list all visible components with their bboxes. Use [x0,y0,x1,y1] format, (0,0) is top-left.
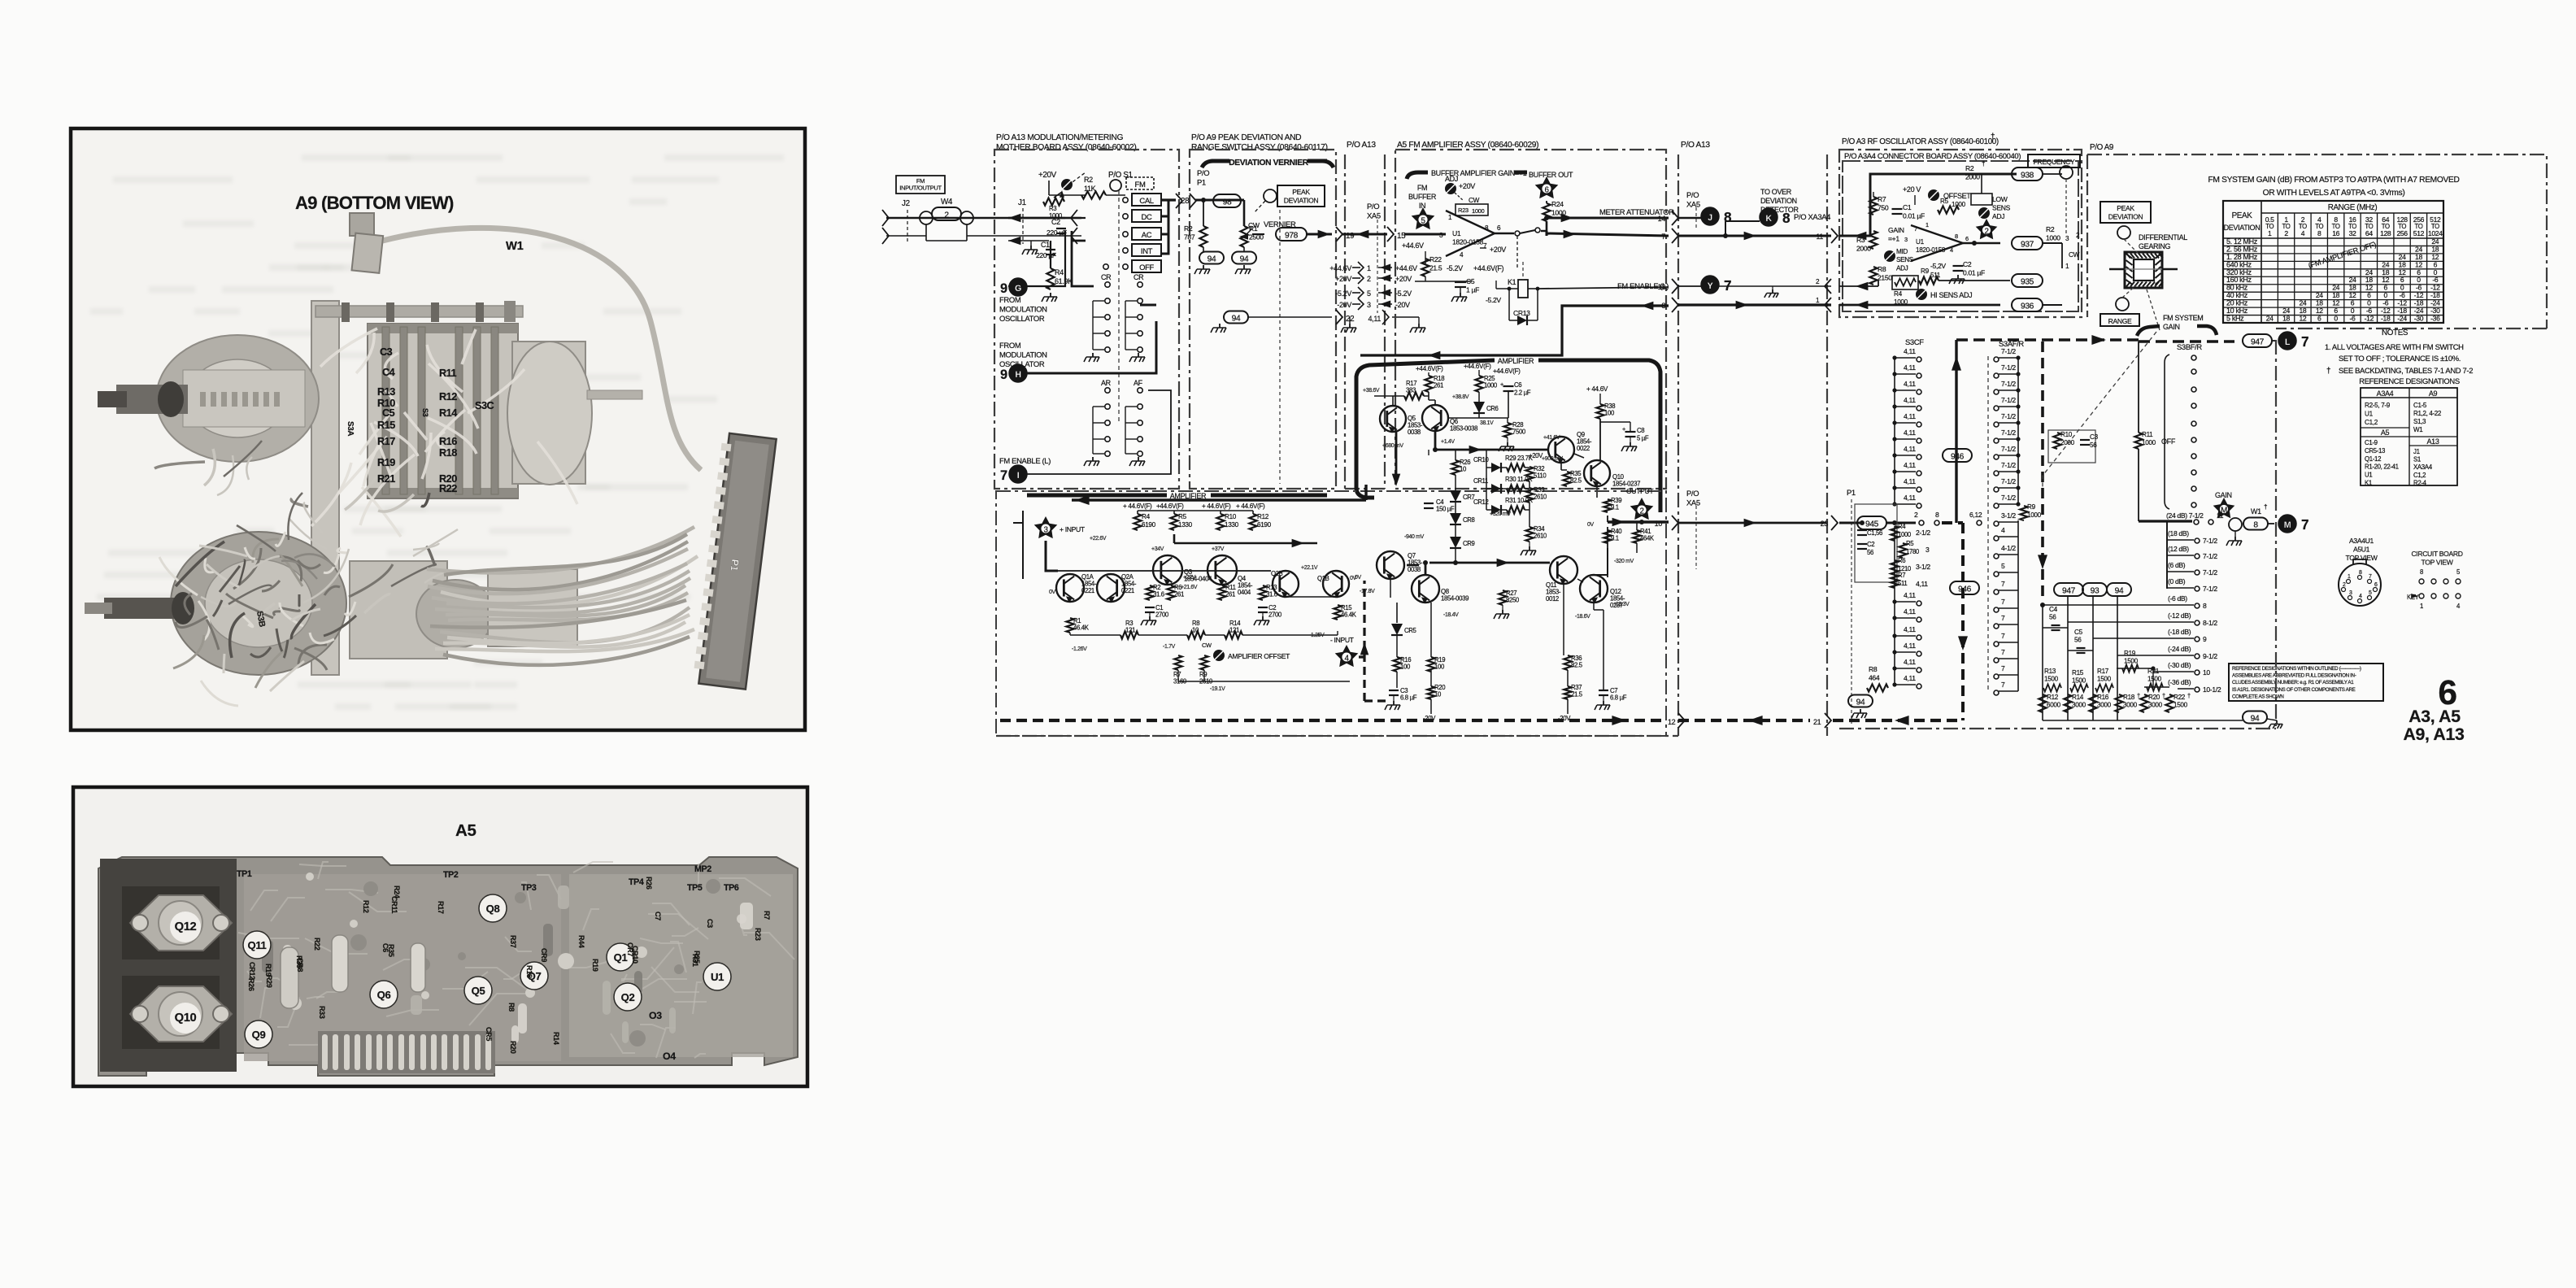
svg-text:O3: O3 [649,1010,662,1021]
svg-text:†: † [2137,692,2140,699]
resistor R34 2610 [1525,527,1533,542]
svg-text:+320 mV: +320 mV [1490,511,1511,517]
svg-text:+1.4V: +1.4V [1441,439,1455,445]
svg-text:7-1/2: 7-1/2 [2001,380,2016,388]
resistor R19 100 [1427,657,1434,672]
flag Y 7 [1678,285,1702,287]
svg-text:4,11: 4,11 [1904,625,1916,633]
heading DEVIATION VERNIER [1202,161,1334,168]
svg-text:MODULATION: MODULATION [999,304,1047,313]
svg-text:TP5: TP5 [687,883,703,893]
svg-text:†: † [2162,692,2165,699]
wire Q9 Q10 [1561,454,1597,498]
resistor R10 1330 [1216,514,1224,530]
svg-text:1500: 1500 [2097,675,2112,682]
svg-text:SENS: SENS [1896,256,1914,263]
svg-text:TP4: TP4 [629,877,644,887]
wire opamp out 937 [1963,242,2000,245]
svg-text:CR5: CR5 [1404,627,1416,634]
svg-text:FREQUENCY: FREQUENCY [2034,158,2075,166]
svg-text:R23: R23 [1458,207,1469,214]
svg-text:†: † [1991,133,1995,141]
resistor R11 1000 [2134,433,2142,449]
resistor R14 121 [1225,631,1242,638]
wire Q11 Q12 verticals [1564,579,1603,714]
dB ladder rows [2043,529,2221,694]
svg-text:7: 7 [2001,614,2005,622]
pot symbol W1 [2229,518,2242,531]
op-amp U1 A5 [1446,211,1495,256]
svg-text:Q2: Q2 [621,991,635,1003]
svg-text:383: 383 [1406,387,1416,394]
svg-text:5110: 5110 [1534,472,1547,480]
svg-text:Q9: Q9 [252,1029,266,1041]
svg-text:R12: R12 [362,900,370,913]
svg-text:4,11: 4,11 [1904,674,1916,682]
svg-text:U1: U1 [1452,229,1461,237]
capacitor C2 56 [1857,543,1867,545]
svg-text:8: 8 [2203,602,2207,610]
svg-text:R5: R5 [1906,540,1913,547]
pin 13 [1672,279,1678,294]
svg-text:A5U1: A5U1 [2353,546,2370,554]
svg-text:S3: S3 [421,408,429,417]
svg-text:1000: 1000 [2046,234,2060,242]
svg-text:Q6: Q6 [377,989,391,1001]
svg-text:C2: C2 [1867,541,1874,548]
svg-text:CR6: CR6 [1486,405,1499,412]
svg-text:R6: R6 [1898,557,1905,564]
svg-text:+22.6V: +22.6V [1090,536,1107,542]
svg-text:MP2: MP2 [694,864,711,874]
svg-text:7: 7 [2301,516,2308,533]
svg-text:S1: S1 [2413,456,2421,463]
svg-text:10: 10 [2203,668,2210,677]
svg-text:4: 4 [1950,246,1953,254]
capacitor C4 150uF [1424,503,1434,504]
svg-text:31.6: 31.6 [1153,591,1164,598]
capacitor C8 5uF [1625,431,1636,433]
svg-text:7: 7 [1000,468,1007,483]
svg-text:J: J [1708,213,1712,223]
svg-text:TP2: TP2 [443,870,459,880]
svg-text:1: 1 [2348,574,2351,580]
wire Q5 Q6 base link [1374,391,1508,418]
svg-text:R22: R22 [1429,255,1442,263]
svg-text:R26: R26 [247,978,255,991]
tag 938 [1997,173,2008,175]
transistor Q1A [1056,574,1084,602]
tag 94 P1 [1848,695,1873,707]
svg-text:4: 4 [2001,526,2005,534]
ground 94 right [1243,265,1245,269]
svg-text:7-1/2: 7-1/2 [2001,429,2016,437]
svg-text:S1,3: S1,3 [2413,418,2426,425]
svg-text:S3CF: S3CF [1905,337,1924,346]
pin 4,11 [1382,310,1389,324]
capacitor C5 56 [2068,650,2093,651]
svg-text:U1: U1 [2365,411,2374,418]
svg-text:-36: -36 [2430,315,2440,323]
svg-text:8: 8 [2420,568,2423,576]
svg-text:+22V: +22V [1183,575,1196,581]
svg-text:DEVIATION: DEVIATION [2224,224,2261,232]
pot wiper dashed to S1 [1064,172,1086,189]
svg-text:XA5: XA5 [1367,211,1381,220]
svg-text:GAIN: GAIN [1888,226,1904,234]
svg-text:4,11: 4,11 [1904,591,1916,599]
svg-text:-5.2V: -5.2V [1447,264,1463,272]
svg-text:-5.2V: -5.2V [1395,289,1412,298]
svg-text:METER ATTENUATOR: METER ATTENUATOR [1599,207,1674,216]
wire R11 up [2138,342,2139,433]
svg-text:GAIN: GAIN [2215,491,2232,499]
svg-text:OR WITH LEVELS AT A9TPA <0. 3V: OR WITH LEVELS AT A9TPA <0. 3Vrms) [2263,189,2405,198]
capacitor C5 1uF [1455,281,1466,283]
svg-text:8: 8 [1782,210,1791,226]
svg-text:C7: C7 [654,912,662,920]
svg-text:R16: R16 [2097,694,2109,701]
svg-text:(0 dB): (0 dB) [2168,577,2186,585]
tag 947 mid [2054,583,2083,596]
ground strip [1349,317,1351,324]
svg-text:P1: P1 [729,559,742,572]
svg-text:Q1B: Q1B [1317,575,1329,582]
resistor R21 1500 [2144,686,2169,688]
gearing dashed link long [2043,332,2156,488]
svg-text:3000: 3000 [2148,701,2163,708]
svg-text:M: M [2284,520,2291,530]
wire J1 arrows [1008,217,1065,220]
svg-text:7-1/2: 7-1/2 [2001,363,2016,372]
svg-text:3-1/2: 3-1/2 [1916,563,1930,571]
pin 2 right [1825,279,1831,294]
svg-text:4,11: 4,11 [1904,429,1916,437]
svg-text:W4: W4 [941,198,953,207]
svg-text:150 µF: 150 µF [1436,506,1455,513]
svg-text:W1: W1 [2251,507,2261,516]
svg-text:261: 261 [1434,382,1443,389]
svg-text:10: 10 [1460,466,1467,473]
svg-text:-18.6V: -18.6V [1575,614,1590,620]
svg-text:94: 94 [1856,698,1865,707]
resistor R6 261 [1167,585,1174,600]
svg-text:R7: R7 [1878,195,1886,203]
resistor R8 2150 [1869,267,1877,285]
svg-text:-19.3V: -19.3V [1614,602,1630,607]
svg-text:+44.6V(F): +44.6V(F) [1416,365,1443,372]
svg-text:+20V: +20V [1529,452,1543,459]
svg-text:5 kHz: 5 kHz [2226,315,2244,323]
svg-text:3: 3 [1043,526,1048,535]
svg-text:-5,2V: -5,2V [1930,262,1946,270]
capacitor C6 2.2uF [1503,385,1514,387]
ref designation outline note [2229,664,2383,701]
svg-text:A5: A5 [2381,429,2390,437]
svg-text:0.01 µF: 0.01 µF [1903,212,1925,220]
ground CR columns [1092,353,1094,357]
HI SENS ADJ [1916,289,1927,300]
svg-text:R23: R23 [754,928,762,941]
svg-text:C4: C4 [2049,606,2058,613]
svg-text:R9: R9 [2027,503,2036,511]
svg-text:+34V: +34V [1151,546,1164,552]
svg-text:3-1/2: 3-1/2 [2001,511,2016,520]
svg-text:C5: C5 [1466,277,1475,285]
OFFSET pot [1928,189,1939,201]
svg-text:1: 1 [1925,221,1929,228]
svg-text:R15: R15 [2072,669,2084,677]
svg-text:R1,2, 4-22: R1,2, 4-22 [2413,410,2442,417]
wire offset row [1070,631,1338,635]
svg-text:GAIN: GAIN [2163,323,2180,331]
resistor R15 1500 [2070,684,2088,691]
svg-text:1854-0039: 1854-0039 [1441,595,1469,603]
svg-text:7-1/2: 7-1/2 [2001,412,2016,420]
svg-text:C1: C1 [1903,203,1912,211]
svg-text:38.1V: 38.1V [1480,420,1494,426]
svg-text:CW: CW [1248,221,1260,229]
svg-text:A13: A13 [2427,437,2439,446]
svg-text:Q1: Q1 [614,951,628,964]
svg-text:-19.1V: -19.1V [1210,686,1225,692]
svg-text:CR5-13: CR5-13 [2365,447,2386,455]
svg-text:S3C: S3C [475,399,494,411]
pin 8 left heavy [1672,298,1678,312]
capacitor C1,56 [1857,529,1867,531]
svg-text:Q1-12: Q1-12 [2365,455,2381,463]
switch label FM [1126,177,1154,189]
contact rows lower S3CF [1892,526,1921,689]
svg-text:CR5: CR5 [485,1027,493,1041]
svg-text:SEE BACKDATING, TABLES 7-1 AND: SEE BACKDATING, TABLES 7-1 AND 7-2 [2339,366,2473,375]
svg-text:1820-0158: 1820-0158 [1916,246,1946,254]
svg-text:32: 32 [2349,229,2356,237]
svg-text:6: 6 [1965,235,1969,242]
svg-text:R3: R3 [1856,236,1865,244]
svg-text:3: 3 [1367,301,1371,309]
svg-text:121: 121 [1125,627,1135,634]
ghost print [90,154,784,710]
svg-text:2: 2 [2284,229,2288,237]
svg-text:938: 938 [2021,172,2034,181]
svg-text:+20V: +20V [1038,171,1057,180]
op-amp U1 A3 [1911,225,1963,261]
pin 23 [1831,516,1838,530]
svg-text:ASSEMBLIES ARE ABBREVIATED F: ASSEMBLIES ARE ABBREVIATED FULL DESIGNAT… [2232,673,2356,679]
svg-text:R12: R12 [1257,513,1269,520]
transistor Q2B [1273,571,1299,597]
svg-text:936: 936 [2021,302,2034,311]
wire Q5 collector heavy [1395,432,1398,481]
svg-text:0404: 0404 [1238,589,1251,596]
heavy dashed mid vertical [2041,342,2044,602]
resistor R20 10 [1427,686,1434,699]
wire bank bottom rail [2043,720,2243,721]
svg-text:IN: IN [1419,202,1425,210]
resistor R4 6190 [1134,514,1141,530]
svg-text:R14: R14 [552,1032,560,1045]
svg-text:R20: R20 [2148,694,2160,701]
svg-text:(-6 dB): (-6 dB) [2168,594,2187,603]
svg-text:-1.26V: -1.26V [1072,646,1087,652]
transistor Q1B [1323,571,1349,597]
wire bundle to P1 [427,527,698,665]
sub-box amplifier upper [1356,360,1660,512]
svg-text:0012: 0012 [1546,595,1559,603]
svg-text:256: 256 [2396,229,2408,237]
svg-text:A5 FM AMPLIFIER ASSY (08640-60: A5 FM AMPLIFIER ASSY (08640-60029) [1397,141,1538,150]
svg-text:R33: R33 [318,1006,326,1019]
svg-text:4,11: 4,11 [1904,412,1916,420]
pin 1 right [1825,298,1831,312]
wire collector feed arrow [1174,534,1317,543]
wire vernier wiper to pin 19 [1252,233,1264,235]
resistor R15 46.4K [1334,605,1341,620]
resistor R40 9.1 [1603,530,1611,543]
resistor R9 1000 [2020,506,2027,520]
svg-text:A5: A5 [455,821,476,840]
svg-text:CIRCUIT BOARD: CIRCUIT BOARD [2411,550,2462,558]
svg-text:0022: 0022 [1577,445,1590,452]
svg-text:(-18 dB): (-18 dB) [2168,628,2191,636]
svg-text:REFERENCE DESIGNATIONS: REFERENCE DESIGNATIONS [2359,376,2460,385]
svg-text:FM: FM [1417,184,1427,192]
svg-text:+38.8V: +38.8V [1452,394,1469,400]
svg-text:C3: C3 [380,346,393,358]
svg-text:+: + [1500,381,1503,388]
svg-text:5: 5 [2369,590,2372,596]
svg-text:7-1/2: 7-1/2 [2001,347,2016,355]
pin 14 [1672,211,1678,225]
svg-text:C1,56: C1,56 [1867,529,1882,537]
svg-text:-320 mV: -320 mV [1614,559,1634,564]
svg-text:2610: 2610 [1534,533,1547,540]
svg-text:XA3A4: XA3A4 [2413,463,2433,471]
svg-text:R29: R29 [265,975,273,988]
svg-text:4,11: 4,11 [1904,363,1916,372]
shaft circle top [2117,226,2130,239]
svg-text:†: † [2264,503,2267,511]
resistor R26 10 [1451,460,1459,475]
svg-text:J2: J2 [902,199,910,208]
svg-text:CR: CR [1101,273,1112,281]
svg-text:INT: INT [1141,246,1153,255]
tag 8 oval [2243,518,2268,530]
svg-text:1: 1 [1367,264,1371,272]
svg-text:3: 3 [1925,546,1930,554]
svg-text:6: 6 [2317,315,2321,323]
svg-text:2000: 2000 [1856,245,1871,253]
svg-text:R5: R5 [1178,513,1187,520]
svg-text:2: 2 [1914,511,1918,519]
svg-text:1500: 1500 [2173,701,2188,708]
svg-text:+680 mV: +680 mV [1382,443,1403,449]
diodes CR10 CR11 CR12 [1491,463,1501,472]
svg-text:6,12: 6,12 [1969,511,1982,519]
resistor R9 511 [1919,276,1939,284]
wire buffer in [1404,233,1446,236]
wire pin11 into A3 [1839,174,2017,236]
wire return dashed heavy [1000,719,1665,722]
svg-text:R2-5, 7-9: R2-5, 7-9 [2365,402,2391,409]
svg-text:93: 93 [2091,587,2100,596]
svg-text:PEAK: PEAK [2232,211,2253,220]
svg-text:(24 dB) 7-1/2: (24 dB) 7-1/2 [2166,511,2204,520]
connector top [350,213,374,236]
wire rail crossbar [1138,511,1253,514]
resistor R10 2000 and C3 56 [2048,430,2095,463]
svg-text:Q10: Q10 [175,1012,197,1025]
svg-text:16: 16 [2332,229,2339,237]
svg-text:-5.2V: -5.2V [1486,296,1501,304]
svg-text:6: 6 [2374,582,2378,588]
svg-text:7-1/2: 7-1/2 [2001,396,2016,404]
resistor R13 31.6 [1259,585,1266,600]
resistor R18 261 [1428,372,1429,376]
svg-text:R26: R26 [645,877,653,890]
svg-text:C1: C1 [1041,241,1050,249]
svg-text:CR8: CR8 [1463,516,1475,524]
svg-text:R12: R12 [2047,694,2059,701]
svg-text:C1,2: C1,2 [2413,472,2426,479]
svg-text:3000: 3000 [2097,701,2112,708]
svg-text:947: 947 [2062,587,2076,596]
heavy dashed stub 643 [1942,521,1963,524]
svg-text:H: H [1015,370,1020,380]
svg-text:S3BF/R: S3BF/R [2177,342,2202,351]
svg-text:1000: 1000 [1484,382,1498,389]
svg-text:3: 3 [2349,590,2352,596]
svg-text:3000: 3000 [2072,701,2086,708]
svg-text:R4: R4 [1055,268,1064,276]
svg-text:P1: P1 [1847,488,1856,497]
svg-text:R13: R13 [377,385,395,398]
svg-text:12: 12 [2299,315,2306,323]
svg-text:INPUT/OUTPUT: INPUT/OUTPUT [899,185,942,192]
svg-text:AC: AC [1142,230,1152,239]
svg-text:W1: W1 [506,240,524,253]
svg-text:R15: R15 [377,419,395,431]
wire vernier top [1195,199,1244,202]
ground AR AF columns [1092,457,1094,461]
resistor R5 1330 [1170,514,1177,530]
svg-text:4,11: 4,11 [1904,607,1916,616]
capacitor C1 2700 [1145,607,1155,608]
svg-text:21.5: 21.5 [1571,691,1582,698]
svg-text:- INPUT: - INPUT [1330,636,1355,644]
svg-text:31.6: 31.6 [1266,591,1277,598]
svg-text:7: 7 [2301,333,2308,350]
svg-text:94: 94 [1240,255,1249,264]
svg-text:1820-0158: 1820-0158 [1452,238,1484,246]
wire top return left arrow [1072,498,1366,501]
svg-text:M: M [2221,507,2227,516]
wire pin1 936 [1839,304,2000,307]
svg-text:0221: 0221 [1121,587,1134,594]
transistor Q12 [1580,575,1608,603]
svg-text:C1,2: C1,2 [2365,419,2378,426]
svg-text:61.9K: 61.9K [1055,277,1073,285]
svg-text:1000: 1000 [2142,439,2156,446]
svg-text:O4: O4 [663,1051,676,1062]
svg-text:+20V: +20V [1335,275,1351,283]
svg-text:R19: R19 [264,964,272,977]
resistor R29 23.7K [1507,463,1525,471]
wire bus CAL to pin 28 [1161,198,1176,201]
resistor R3 121 [1120,631,1138,638]
svg-text:DEVIATION: DEVIATION [2108,213,2143,221]
